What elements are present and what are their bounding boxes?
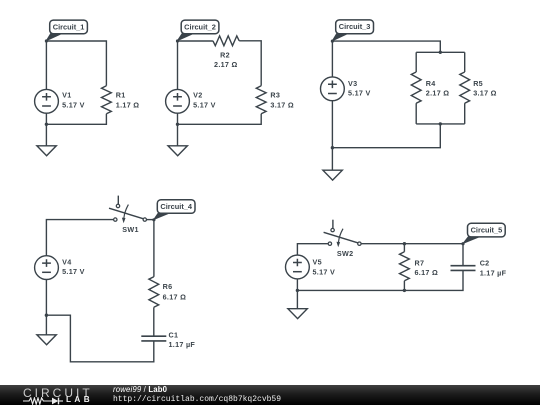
switch SW1 bbox=[109, 196, 147, 234]
ground circuit 4 bbox=[45, 315, 47, 334]
capacitor C2 bbox=[451, 266, 476, 271]
wire: R4 branch bottom bbox=[415, 103, 417, 124]
junction bottom bus bbox=[439, 122, 442, 125]
wire: switch to R7 junction to node bbox=[361, 243, 463, 245]
footer url bbox=[113, 395, 281, 404]
svg-text:C2: C2 bbox=[480, 259, 490, 268]
resistor R6 bbox=[149, 277, 159, 308]
resistor R3 bbox=[256, 86, 266, 114]
wire: V5 top lead + to switch bbox=[297, 244, 328, 255]
svg-text:V4: V4 bbox=[62, 258, 71, 267]
svg-text:3.17 Ω: 3.17 Ω bbox=[473, 89, 497, 98]
svg-text:R2: R2 bbox=[220, 51, 230, 60]
ground circuit 1 bbox=[45, 124, 47, 145]
wire: R5 branch bottom bbox=[464, 103, 466, 124]
CircuitLab logo word CIRCUIT bbox=[23, 386, 93, 400]
node dot circuit 2 bbox=[176, 39, 179, 42]
wire: circuit 2 top-right bbox=[239, 41, 261, 86]
CircuitLab logo resistor-diode glyph bbox=[23, 397, 65, 405]
svg-text:V2: V2 bbox=[193, 91, 202, 100]
wire: V1 top lead bbox=[45, 41, 47, 89]
node dot circuit 5 bbox=[461, 242, 464, 245]
voltage source V4 bbox=[35, 256, 59, 280]
svg-text:Circuit_2: Circuit_2 bbox=[184, 22, 216, 31]
svg-text:2.17 Ω: 2.17 Ω bbox=[426, 89, 450, 98]
junction node circuit 3 bbox=[331, 146, 334, 149]
wire: R7 bottom lead bbox=[403, 281, 405, 291]
wire: V4 top lead + to switch bbox=[46, 220, 113, 256]
label balloon Circuit_2 bbox=[178, 20, 219, 40]
wire: C1 bottom loop back bbox=[46, 315, 153, 362]
resistor R2 bbox=[213, 36, 239, 46]
label balloon Circuit_3 bbox=[332, 20, 373, 41]
svg-text:R7: R7 bbox=[415, 258, 425, 267]
junction node circuit 2 bbox=[176, 123, 179, 126]
node dot circuit 1 bbox=[45, 39, 48, 42]
svg-text:3.17 Ω: 3.17 Ω bbox=[270, 100, 294, 109]
ground circuit 3 bbox=[331, 148, 333, 170]
switch SW2 bbox=[324, 220, 361, 258]
junction node circuit 4 bbox=[45, 314, 48, 317]
wire: V3 top lead bbox=[331, 41, 333, 77]
resistor R1 bbox=[102, 86, 112, 114]
voltage source V5 bbox=[286, 255, 310, 279]
wire: V5 bottom lead bbox=[296, 279, 298, 291]
svg-text:2.17 Ω: 2.17 Ω bbox=[214, 60, 238, 69]
svg-text:5.17 V: 5.17 V bbox=[348, 89, 371, 98]
wire: bus down to bottom rail bbox=[332, 124, 440, 148]
wire: circuit 1 top rail bbox=[46, 41, 106, 86]
footer user / project bbox=[113, 385, 167, 394]
svg-text:6.17 Ω: 6.17 Ω bbox=[163, 292, 187, 301]
wire: R1 bottom lead + bottom rail bbox=[46, 114, 106, 125]
node dot circuit 4 bbox=[152, 218, 155, 221]
ground circuit 5 bbox=[296, 290, 298, 308]
svg-text:5.17 V: 5.17 V bbox=[62, 100, 85, 109]
capacitor C1 bbox=[141, 336, 166, 341]
wire: circuit 3 top rail bbox=[332, 41, 440, 52]
svg-text:SW1: SW1 bbox=[122, 225, 138, 234]
resistor R7 bbox=[400, 252, 410, 281]
node dot circuit 3 bbox=[331, 40, 334, 43]
svg-text:R6: R6 bbox=[163, 282, 173, 291]
junction node circuit 5 bbox=[296, 289, 299, 292]
svg-text:R3: R3 bbox=[270, 91, 280, 100]
wire: V2 bottom lead bbox=[177, 113, 179, 124]
svg-text:R1: R1 bbox=[116, 91, 126, 100]
svg-text:C1: C1 bbox=[169, 330, 179, 339]
wire: parallel bottom bus bbox=[416, 123, 465, 125]
junction node circuit 1 bbox=[45, 123, 48, 126]
svg-text:5.17 V: 5.17 V bbox=[193, 100, 216, 109]
svg-text:6.17 Ω: 6.17 Ω bbox=[415, 268, 439, 277]
wire: R5 branch top bbox=[464, 52, 466, 72]
voltage source V3 bbox=[321, 77, 345, 101]
wire: R4 branch top bbox=[415, 52, 417, 72]
svg-text:5.17 V: 5.17 V bbox=[62, 267, 85, 276]
svg-text:R5: R5 bbox=[473, 79, 483, 88]
svg-text:R4: R4 bbox=[426, 79, 436, 88]
voltage source V1 bbox=[35, 89, 59, 113]
svg-text:Circuit_1: Circuit_1 bbox=[53, 22, 85, 31]
svg-text:Circuit_4: Circuit_4 bbox=[160, 202, 193, 211]
wire: V3 bottom lead bbox=[331, 101, 333, 148]
svg-text:SW2: SW2 bbox=[337, 249, 353, 258]
wire: V2 top lead bbox=[177, 41, 179, 89]
footer bar bbox=[0, 385, 540, 405]
wire: parallel top bus bbox=[416, 51, 465, 53]
svg-text:Circuit_3: Circuit_3 bbox=[339, 22, 371, 31]
junction top bus bbox=[439, 51, 442, 54]
svg-text:V1: V1 bbox=[62, 91, 71, 100]
wire: V1 bottom lead bbox=[45, 113, 47, 124]
resistor R5 bbox=[460, 72, 470, 103]
svg-text:V5: V5 bbox=[313, 258, 322, 267]
svg-text:V3: V3 bbox=[348, 79, 357, 88]
wire: C2 bottom lead + bottom rail bbox=[297, 270, 463, 290]
wire: R3 bottom + circuit 2 bottom rail bbox=[178, 114, 262, 125]
wire: switch to node bbox=[147, 219, 154, 221]
svg-text:1.17 µF: 1.17 µF bbox=[480, 268, 507, 277]
resistor R4 bbox=[411, 72, 421, 103]
ground circuit 2 bbox=[177, 124, 179, 145]
wire: circuit 2 top-left bbox=[178, 40, 213, 42]
voltage source V2 bbox=[166, 89, 190, 113]
label balloon Circuit_5 bbox=[463, 223, 505, 243]
CircuitLab logo word LAB bbox=[66, 395, 93, 404]
svg-text:5.17 V: 5.17 V bbox=[313, 267, 336, 276]
wire: node down to R6 bbox=[153, 220, 155, 277]
label balloon Circuit_1 bbox=[46, 20, 87, 40]
svg-text:1.17 µF: 1.17 µF bbox=[169, 340, 196, 349]
svg-text:1.17 Ω: 1.17 Ω bbox=[116, 100, 140, 109]
wire: C2 top lead bbox=[462, 244, 464, 266]
wire: R6 bottom to C1 bbox=[153, 307, 155, 336]
junction: R7 top bbox=[403, 242, 406, 245]
svg-text:Circuit_5: Circuit_5 bbox=[471, 226, 503, 235]
junction: R7 bottom bbox=[403, 289, 406, 292]
label balloon Circuit_4 bbox=[154, 200, 195, 220]
wire: R7 top lead bbox=[403, 244, 405, 252]
wire: V4 bottom lead bbox=[45, 280, 47, 316]
